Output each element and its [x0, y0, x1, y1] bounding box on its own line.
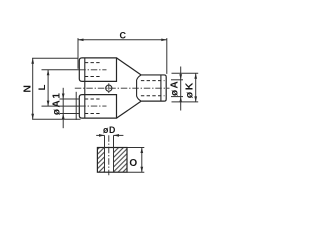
svg-text:øA: øA: [169, 80, 180, 96]
dimension A line: [180, 67, 182, 111]
top port thread line upper: [85, 62, 101, 64]
section block hatched left: [97, 148, 104, 173]
dimension O extension bottom: [128, 171, 145, 173]
vertical extension line left of bottom port: [75, 92, 77, 120]
svg-text:ø D: ø D: [103, 125, 115, 135]
dimension A1 extension bottom: [60, 113, 81, 115]
dimension K line: [195, 73, 197, 102]
hole vertical centerline lower: [108, 135, 110, 175]
dimension L extension top: [42, 69, 80, 71]
cone bottom line: [117, 101, 142, 118]
dimension O extension top: [128, 147, 145, 149]
svg-text:O: O: [129, 158, 137, 169]
dimension C extension left: [77, 38, 79, 69]
top port thread line lower: [85, 76, 101, 78]
svg-text:C: C: [120, 31, 127, 41]
dimension C line: [78, 39, 167, 41]
svg-text:øA1: øA1: [51, 91, 62, 115]
dimension A arrow top: [179, 74, 182, 80]
bottom port thread line lower: [85, 113, 101, 115]
dimension K arrow top: [194, 73, 197, 79]
dimension N extension bottom: [32, 118, 80, 120]
dimension N arrow bottom: [31, 114, 34, 120]
dimension K arrow bottom: [194, 96, 197, 102]
dimension N extension top: [32, 57, 77, 59]
dimension A arrow bottom: [179, 97, 182, 103]
hole wall left: [104, 135, 106, 172]
dimension D line left: [96, 134, 104, 136]
outlet groove face: [137, 75, 142, 101]
dimension O line: [141, 148, 143, 173]
bottom port centerline: [79, 105, 106, 107]
section block outline: [97, 148, 127, 173]
dimension L arrow bottom: [47, 101, 50, 107]
dimension C arrow right: [161, 38, 167, 41]
dimension L arrow top: [47, 70, 50, 76]
outlet cylinder outline: [141, 75, 166, 101]
dimension A extension top: [171, 79, 183, 81]
svg-text:N: N: [22, 85, 34, 93]
bottom port thread line upper: [85, 98, 101, 100]
dimension N line: [32, 58, 34, 119]
dimension D arrow left: [99, 134, 105, 137]
section block hatched right: [114, 148, 128, 173]
dimension D line right: [114, 134, 124, 136]
body boundary vertical line: [84, 58, 86, 118]
hole circle: [106, 85, 112, 91]
dimension A1 extension top: [60, 98, 80, 100]
top port centerline: [79, 69, 106, 71]
dimension D arrow right: [114, 134, 120, 137]
hole wall right: [113, 135, 115, 172]
dimension A1 arrow top: [62, 94, 65, 100]
dimension O arrow bottom: [140, 167, 143, 173]
outlet thread line upper: [141, 80, 165, 82]
dimension A1 line: [62, 88, 64, 128]
hole vertical centerline upper: [108, 83, 110, 94]
main centerline: [75, 87, 170, 89]
dimension C extension right: [166, 38, 168, 74]
dimension C arrow left: [78, 38, 84, 41]
svg-text:L: L: [37, 84, 48, 90]
dimension O arrow top: [140, 148, 143, 154]
dimension L extension bottom: [42, 105, 80, 107]
dimension A1 arrow bottom: [62, 114, 65, 120]
svg-text:øK: øK: [184, 81, 196, 98]
dimension A extension bottom: [171, 96, 183, 98]
dimension K extension bottom: [172, 101, 199, 103]
dimension N arrow top: [31, 58, 34, 64]
dimension K extension top: [172, 72, 199, 74]
outlet thread line lower: [141, 95, 165, 97]
outlet end cap line: [160, 75, 162, 101]
cone top line: [117, 58, 142, 75]
top port cylinder body: [79, 58, 116, 81]
bottom port cylinder body: [79, 95, 116, 119]
dimension L line: [47, 70, 49, 106]
